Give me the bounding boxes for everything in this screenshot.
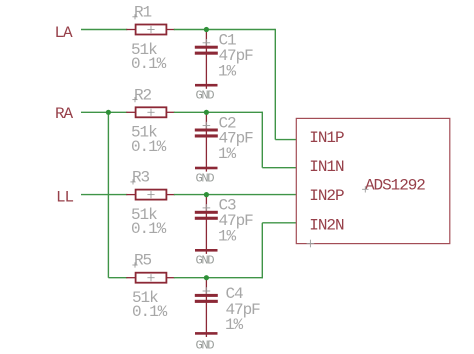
junction node N4: [204, 275, 209, 280]
wire R1 to node N1: [174, 29, 207, 31]
resistor R1 name origin cross: [132, 14, 137, 19]
resistor R2 name origin cross: [132, 97, 137, 102]
resistor R5 body: [136, 273, 167, 283]
wire vertical down to IN1P row: [274, 29, 276, 140]
ground GND label under C4: [196, 339, 215, 353]
ground symbol bar under C3: [195, 249, 218, 252]
svg-text:R2: R2: [134, 86, 152, 104]
wire node N4 toward IN2N: [206, 277, 262, 279]
IC name origin cross: [362, 186, 368, 192]
capacitor C3 vertical wire: [205, 195, 207, 254]
wire vertical down to IN1N row: [261, 112, 263, 168]
ground symbol bar under C1: [195, 84, 218, 87]
capacitor C4 name label: [226, 285, 244, 303]
svg-text:GND: GND: [196, 89, 215, 103]
svg-text:IN1P: IN1P: [309, 129, 344, 147]
resistor R3 left pin stub: [126, 194, 136, 196]
capacitor C4 origin cross: [203, 287, 211, 295]
capacitor C3 name label: [219, 197, 237, 215]
wire RA branch corner to R5: [108, 277, 127, 279]
resistor R3 tolerance 0.1%: [131, 220, 167, 238]
capacitor C1 tolerance 1%: [218, 62, 237, 80]
ground symbol bar under C2: [195, 167, 218, 170]
wire into pin IN2N: [262, 222, 296, 224]
pin label IN1P: [309, 129, 344, 147]
resistor R5 origin cross: [147, 274, 154, 281]
wire R2 to node N2: [174, 111, 207, 113]
svg-text:IN1N: IN1N: [309, 158, 344, 176]
ground symbol bar under C4: [195, 332, 218, 335]
IC U1 origin cross on bottom edge: [307, 240, 315, 248]
resistor R5 value 51k: [132, 289, 158, 307]
resistor R3 value 51k: [131, 206, 157, 224]
ground GND label under C3: [196, 254, 215, 268]
resistor R5 left pin stub: [126, 277, 136, 279]
wire LL to R3 (crosses RA branch): [81, 194, 127, 196]
resistor R3 origin cross: [147, 191, 154, 198]
resistor R1 name label: [134, 4, 152, 22]
capacitor C4 vertical wire: [205, 278, 207, 337]
capacitor C2 value 47pF: [219, 130, 254, 148]
svg-text:1%: 1%: [218, 62, 237, 80]
resistor R1 right pin stub: [165, 29, 174, 31]
wire node N2 toward IN1N: [206, 111, 262, 113]
ground GND label under C2: [196, 171, 215, 185]
svg-text:R3: R3: [132, 169, 150, 187]
resistor R1 left pin stub: [126, 29, 136, 31]
net label LA: [55, 24, 74, 42]
svg-text:LA: LA: [55, 24, 74, 42]
capacitor C3 top plate: [195, 211, 218, 214]
resistor R2 left pin stub: [126, 111, 136, 113]
resistor R5 right pin stub: [165, 277, 174, 279]
wire RA to junction: [81, 111, 108, 113]
net label RA: [55, 105, 74, 123]
wire node N1 toward IN1P: [206, 29, 275, 31]
svg-text:GND: GND: [196, 339, 215, 353]
resistor R1 origin cross: [147, 26, 154, 33]
resistor R3 right pin stub: [165, 194, 174, 196]
svg-text:GND: GND: [196, 254, 215, 268]
wire R5 to node N4: [174, 277, 207, 279]
capacitor C4 tolerance 1%: [225, 316, 244, 334]
svg-text:0.1%: 0.1%: [131, 138, 167, 156]
resistor R3 name label: [132, 169, 150, 187]
wire junction to R2: [108, 111, 127, 113]
wire into pin IN1N: [262, 167, 296, 169]
capacitor C1 value 47pF: [219, 47, 254, 65]
svg-text:1%: 1%: [225, 316, 244, 334]
capacitor C3 tolerance 1%: [218, 227, 237, 245]
ground GND label under C1: [196, 89, 215, 103]
capacitor C4 top plate: [195, 294, 218, 297]
resistor R3 name origin cross: [130, 179, 135, 184]
IC name label ADS1292: [365, 176, 425, 194]
svg-text:R1: R1: [134, 4, 152, 22]
resistor R5 name origin cross: [132, 262, 137, 267]
svg-text:ADS1292: ADS1292: [365, 176, 425, 194]
svg-text:GND: GND: [196, 171, 215, 185]
svg-text:LL: LL: [56, 189, 74, 207]
resistor R5 name label: [134, 252, 152, 270]
svg-text:0.1%: 0.1%: [132, 303, 168, 321]
net label LL: [56, 189, 74, 207]
resistor R2 right pin stub: [165, 111, 174, 113]
capacitor C4 value 47pF: [226, 301, 261, 319]
capacitor C2 bottom plate: [195, 134, 218, 137]
resistor R2 value 51k: [131, 124, 157, 142]
capacitor C1 origin cross: [203, 39, 211, 47]
op-amp/IC U1 ADS1292 body: [296, 118, 450, 243]
wire branch RA down to R5 row: [107, 112, 109, 277]
capacitor C2 tolerance 1%: [218, 145, 237, 163]
capacitor C1 bottom plate: [195, 52, 218, 55]
resistor R3 body: [136, 190, 167, 200]
pin label IN2P: [309, 187, 344, 205]
svg-text:0.1%: 0.1%: [131, 55, 167, 73]
resistor R1 body: [136, 25, 167, 35]
resistor R1 tolerance 0.1%: [131, 55, 167, 73]
svg-text:IN2P: IN2P: [309, 187, 344, 205]
capacitor C2 top plate: [195, 129, 218, 132]
junction node at RA branch: [106, 110, 111, 115]
resistor R2 body: [136, 107, 167, 117]
wire vertical up to IN2N row: [261, 223, 263, 279]
junction node N1: [204, 27, 209, 32]
capacitor C4 bottom plate: [195, 300, 218, 303]
svg-text:IN2N: IN2N: [309, 217, 344, 235]
svg-text:R5: R5: [134, 252, 152, 270]
capacitor C2 vertical wire: [205, 112, 207, 171]
wire LA to R1: [81, 29, 127, 31]
resistor R5 tolerance 0.1%: [132, 303, 168, 321]
resistor R2 origin cross: [147, 109, 154, 116]
svg-text:RA: RA: [55, 105, 74, 123]
wire into pin IN1P: [275, 139, 296, 141]
wire R3 through node N3 into pin IN2P: [174, 194, 296, 196]
capacitor C1 name label: [219, 32, 237, 50]
capacitor C3 origin cross: [203, 204, 211, 212]
resistor R2 tolerance 0.1%: [131, 138, 167, 156]
capacitor C1 top plate: [195, 46, 218, 49]
capacitor C2 origin cross: [203, 122, 211, 130]
svg-text:1%: 1%: [218, 227, 237, 245]
junction node N3: [204, 192, 209, 197]
junction node N2: [204, 110, 209, 115]
svg-text:0.1%: 0.1%: [131, 220, 167, 238]
capacitor C3 bottom plate: [195, 217, 218, 220]
capacitor C3 value 47pF: [219, 212, 254, 230]
pin label IN1N: [309, 158, 344, 176]
resistor R2 name label: [134, 86, 152, 104]
pin label IN2N: [309, 217, 344, 235]
capacitor C1 vertical wire: [205, 30, 207, 89]
capacitor C2 name label: [219, 114, 237, 132]
resistor R1 value 51k: [131, 41, 157, 59]
svg-text:1%: 1%: [218, 145, 237, 163]
